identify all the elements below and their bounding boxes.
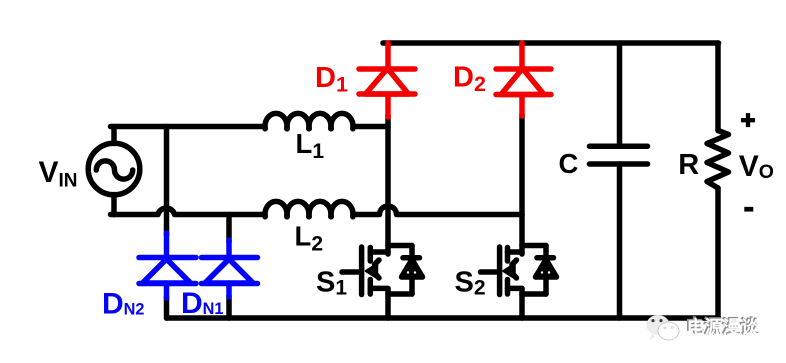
svg-text:电源漫谈: 电源漫谈 (687, 317, 760, 338)
wire bottom input with hop (111, 208, 266, 214)
wire L1 to node A (353, 124, 388, 130)
S2 channel top nub (505, 248, 511, 262)
S2 arrow shaft lower (512, 273, 517, 278)
wire top rail (383, 40, 719, 46)
S2 gate lead (481, 269, 498, 275)
wire bottom rail (167, 315, 719, 321)
wire node B vertical to S2 (519, 215, 525, 255)
S1 drain branch (388, 243, 412, 249)
S1 channel top nub (368, 248, 374, 262)
diode D1 (359, 43, 415, 117)
watermark icon (647, 315, 680, 343)
wire C top (617, 43, 623, 146)
resistor R zigzag (707, 131, 729, 189)
wire top input (111, 124, 266, 130)
S2 source vertical (519, 289, 525, 319)
S2 drain branch (522, 243, 546, 249)
S1 arrow shaft lower (375, 273, 380, 278)
source VIN circle (88, 143, 140, 195)
S1 body-diode branch bottom (409, 278, 415, 295)
S2 body-diode branch top (543, 246, 549, 259)
svg-text:R: R (678, 149, 699, 181)
S2 gate bar (497, 247, 503, 295)
wire D2 black below to node B (519, 115, 525, 215)
capacitor C plate bottom (590, 161, 648, 167)
S1 source horizontal (370, 286, 388, 292)
svg-text:C: C (559, 148, 579, 179)
S1 channel bottom nub (368, 280, 374, 295)
S1 body-diode return (388, 291, 412, 297)
wire node DN2 vertical (164, 127, 170, 236)
S1 body-diode triangle (402, 260, 423, 278)
inductor L2 (265, 201, 287, 216)
S2 channel bottom nub (505, 280, 511, 295)
diode DN2 (139, 233, 196, 298)
label plus (741, 113, 755, 127)
wire C bottom (617, 164, 623, 318)
wire DN1 bottom (226, 296, 232, 318)
diode DN1 (202, 240, 258, 297)
label minus (744, 207, 753, 212)
S2 source horizontal (508, 286, 523, 292)
S2 body-diode return (522, 291, 546, 297)
wire node A vertical to S1 (385, 127, 391, 255)
S1 gate lead (342, 269, 359, 275)
S1 gate bar (359, 247, 365, 295)
wire node DN1 vertical (226, 215, 232, 243)
S1 source vertical (385, 289, 391, 319)
S1 body-diode cathode bar (403, 255, 420, 261)
wire VIN bottom stub (111, 195, 117, 215)
wire R bottom (715, 188, 721, 318)
wire R top (715, 43, 721, 130)
S2 body-diode branch bottom (543, 278, 549, 295)
S2 arrow head (504, 264, 515, 278)
wire L2 to node B with hop (353, 206, 522, 215)
wire VIN top stub (111, 127, 117, 144)
wire D1 black below (385, 116, 391, 127)
S2 body-diode cathode bar (537, 255, 554, 261)
S2 body-diode triangle (536, 260, 557, 278)
wire DN2 bottom (164, 297, 170, 318)
S2 drain horizontal (508, 249, 523, 255)
S1 arrow head (366, 264, 377, 278)
transistor S2 (481, 246, 557, 319)
transistor S1 (342, 246, 423, 319)
inductor L1 (265, 113, 287, 128)
S1 arrow shaft upper (375, 260, 380, 265)
S2 arrow shaft upper (512, 260, 517, 265)
S1 drain horizontal (370, 249, 388, 255)
capacitor C plate top (590, 143, 648, 149)
source VIN sine (96, 161, 132, 179)
diode D2 (496, 43, 551, 116)
S1 body-diode branch top (409, 246, 415, 259)
